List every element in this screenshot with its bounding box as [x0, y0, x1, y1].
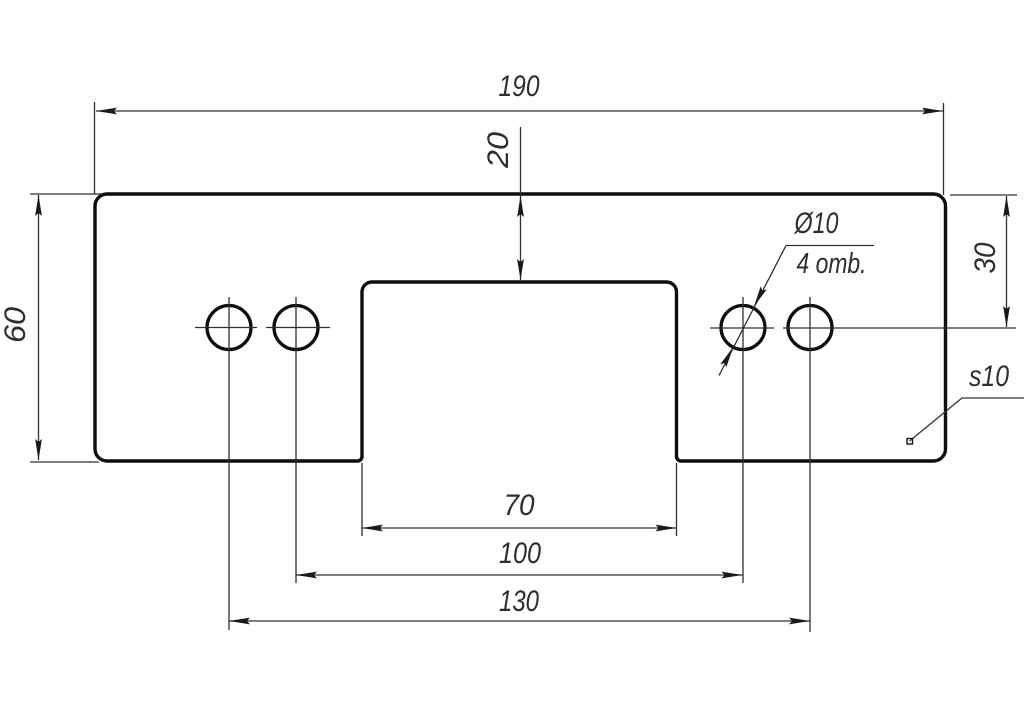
arrow 100 left [296, 572, 317, 579]
svg-text:130: 130 [499, 585, 539, 618]
arrow 100 right [722, 572, 743, 579]
arrow 190 left [96, 108, 117, 115]
svg-text:20: 20 [482, 132, 515, 169]
dim 60 line [38, 195, 40, 460]
arrow 70 left [362, 525, 383, 532]
plate outline [95, 194, 946, 461]
centerline vertical hole H1, extends down as 130-dim extension [228, 297, 230, 630]
dim 190 extension left [94, 102, 96, 194]
leader s10 shelf [962, 397, 1024, 399]
arrow 60 up [35, 195, 42, 216]
dim 30 line [1006, 196, 1008, 327]
hole H4 (right outer) [788, 306, 832, 350]
svg-text:s10: s10 [969, 360, 1009, 393]
leader s10 diagonal [910, 398, 963, 441]
arrow 60 down [35, 439, 42, 460]
svg-text:30: 30 [969, 242, 1002, 273]
dim 30 extension top [950, 194, 1017, 196]
arrow 20 down [517, 259, 524, 280]
dim 60 extension top [30, 193, 103, 195]
centerline vertical hole H4 [809, 297, 811, 632]
svg-text:100: 100 [499, 537, 541, 570]
dim 20 line [520, 127, 522, 280]
leader diameter line through hole H3 [719, 246, 786, 376]
arrow diameter leader upper [751, 286, 767, 308]
dim 70 extension left [361, 463, 363, 536]
dim 70 extension right [676, 463, 678, 536]
arrow 130 right [789, 618, 810, 625]
dim 190 extension right [943, 103, 945, 195]
dim 130 line [229, 620, 810, 622]
arrow 130 left [229, 618, 250, 625]
arrow 30 up [1003, 196, 1010, 217]
centerline horizontal left pair [195, 327, 257, 329]
hole H2 (left inner) [274, 306, 318, 350]
svg-text:Ø10: Ø10 [794, 207, 839, 240]
s10 leader end square [907, 439, 913, 445]
dim 70 line [362, 527, 677, 529]
centerline horizontal right pair, extends right as 30-dim extension [710, 327, 774, 329]
arrow 30 down [1003, 306, 1010, 327]
centerline vertical hole H3 [742, 297, 744, 583]
centerline vertical hole H2, extends down as 100-dim extension [295, 297, 297, 583]
arrow diameter leader lower [720, 346, 736, 368]
hole H3 (right inner) [721, 306, 765, 350]
arrow 20 up [517, 196, 524, 217]
svg-text:60: 60 [0, 307, 32, 343]
svg-text:190: 190 [499, 70, 540, 103]
dim 190 line [96, 110, 943, 112]
arrow 190 right [922, 108, 943, 115]
hole H1 (left outer) [207, 306, 251, 350]
dim 100 line [296, 574, 743, 576]
svg-text:70: 70 [504, 489, 535, 522]
arrow 70 right [656, 525, 677, 532]
svg-text:4 omb.: 4 omb. [797, 248, 867, 280]
dim 60 extension bottom [30, 461, 99, 463]
leader shelf for diameter label [786, 245, 874, 247]
